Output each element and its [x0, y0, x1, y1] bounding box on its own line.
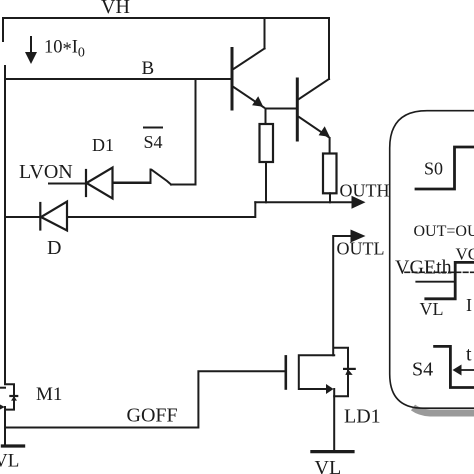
- wire Q2 emitter to R2: [329, 138, 331, 154]
- svg-text:B: B: [142, 58, 155, 79]
- resistor R2: [323, 154, 337, 194]
- wire GOFF line: [5, 371, 286, 427]
- wire D line left: [5, 216, 40, 218]
- wire VH rail: [5, 17, 329, 19]
- box timing diagram rounded frame: [390, 111, 474, 409]
- svg-text:VGH: VGH: [456, 245, 474, 264]
- wire node B line: [5, 78, 232, 80]
- wire OUTL with arrow: [333, 230, 365, 356]
- svg-text:OUT=OUT: OUT=OUT: [414, 223, 474, 240]
- svg-text:S4: S4: [412, 359, 433, 381]
- svg-text:S4: S4: [144, 132, 163, 152]
- svg-text:D1: D1: [92, 135, 114, 155]
- wire Q1 emitter to Q2 base: [266, 108, 298, 110]
- waveform VGE dashed threshold: [405, 271, 474, 273]
- switch S4: [113, 170, 196, 185]
- box timing diagram shadow: [413, 408, 474, 414]
- wire left rail: [4, 66, 6, 384]
- svg-text:M1: M1: [36, 384, 62, 405]
- waveform S0: [416, 147, 474, 189]
- wire R2 bottom lead: [329, 193, 331, 202]
- svg-text:GOFF: GOFF: [127, 405, 178, 427]
- svg-text:t: t: [466, 344, 472, 366]
- svg-text:D: D: [47, 237, 61, 259]
- svg-text:OUTH: OUTH: [340, 181, 390, 201]
- waveform S4 time arrow: [453, 365, 474, 376]
- svg-text:VGEth: VGEth: [395, 257, 452, 279]
- diode D1: [86, 168, 151, 199]
- wire LVON lead: [49, 183, 86, 185]
- waveform VGE axis: [416, 281, 455, 283]
- svg-text:VL: VL: [315, 457, 342, 474]
- mosfet LD1: [286, 348, 355, 452]
- label S4 bar: [144, 128, 163, 153]
- diode D: [40, 202, 67, 231]
- transistor Q2: [297, 18, 330, 140]
- wire left rail upper stub: [2, 18, 4, 41]
- svg-text:LD1: LD1: [344, 406, 381, 428]
- wire D line right with jog to OUTH node: [67, 202, 255, 217]
- svg-text:10*I0: 10*I0: [44, 38, 85, 61]
- wire R1 bottom lead: [265, 162, 267, 202]
- ground VL of LD1: [312, 450, 353, 453]
- svg-text:S0: S0: [424, 159, 443, 179]
- svg-text:I: I: [466, 295, 472, 315]
- svg-text:LVON: LVON: [19, 161, 73, 183]
- svg-text:OUTL: OUTL: [337, 239, 385, 259]
- transistor Q1: [232, 18, 265, 109]
- mosfet M1: [0, 384, 17, 445]
- resistor R1: [260, 124, 274, 162]
- waveform VGE step: [426, 262, 474, 298]
- ground VL of M1: [2, 444, 23, 447]
- wire S4 branch vertical: [195, 79, 197, 185]
- svg-text:VL: VL: [420, 299, 444, 319]
- wire OUTH line with arrow: [255, 196, 365, 209]
- svg-text:VL: VL: [0, 451, 19, 472]
- svg-text:VH: VH: [101, 0, 130, 18]
- wire Q1 emitter node to R1: [265, 109, 267, 125]
- waveform S4: [435, 346, 474, 387]
- current source arrow 10*I0: [25, 37, 37, 64]
